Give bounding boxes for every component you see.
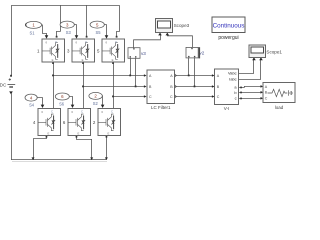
svg-text:S2: S2 bbox=[93, 101, 99, 106]
svg-text:3: 3 bbox=[67, 49, 70, 54]
svg-text:b: b bbox=[234, 90, 236, 95]
svg-text:C: C bbox=[265, 97, 268, 101]
svg-text:LC Filter1: LC Filter1 bbox=[151, 105, 171, 110]
svg-text:v3: v3 bbox=[141, 51, 146, 56]
svg-text:C: C bbox=[85, 40, 87, 44]
svg-text:v2: v2 bbox=[199, 51, 204, 56]
svg-text:load: load bbox=[275, 105, 284, 110]
svg-text:powergui: powergui bbox=[218, 35, 238, 41]
svg-text:E: E bbox=[52, 58, 54, 62]
svg-text:C: C bbox=[51, 110, 53, 114]
svg-text:E: E bbox=[78, 131, 80, 135]
svg-text:S5: S5 bbox=[95, 30, 101, 35]
svg-text:E: E bbox=[108, 131, 110, 135]
svg-text:C: C bbox=[111, 110, 113, 114]
svg-text:C: C bbox=[81, 110, 83, 114]
svg-text:E: E bbox=[48, 131, 50, 135]
svg-text:DC: DC bbox=[0, 83, 7, 88]
svg-text:E: E bbox=[112, 58, 114, 62]
svg-text:Scope1: Scope1 bbox=[266, 50, 282, 55]
svg-text:4: 4 bbox=[33, 120, 36, 125]
svg-text:Scope3: Scope3 bbox=[174, 23, 190, 28]
svg-text:C: C bbox=[170, 95, 173, 99]
svg-text:2: 2 bbox=[93, 120, 96, 125]
svg-text:C: C bbox=[217, 95, 220, 99]
svg-text:C: C bbox=[55, 40, 57, 44]
svg-text:Vabc: Vabc bbox=[228, 71, 237, 76]
svg-text:c: c bbox=[235, 96, 237, 101]
svg-text:E: E bbox=[82, 58, 84, 62]
svg-text:6: 6 bbox=[63, 120, 66, 125]
svg-text:C: C bbox=[149, 95, 152, 99]
svg-text:S6: S6 bbox=[59, 102, 65, 107]
svg-text:5: 5 bbox=[97, 49, 100, 54]
svg-text:S1: S1 bbox=[29, 30, 35, 35]
svg-text:C: C bbox=[115, 40, 117, 44]
svg-text:S4: S4 bbox=[29, 102, 35, 107]
svg-text:Iabc: Iabc bbox=[229, 77, 236, 82]
svg-text:S3: S3 bbox=[66, 30, 72, 35]
svg-text:Continuous: Continuous bbox=[213, 22, 245, 29]
svg-text:V-I: V-I bbox=[224, 106, 230, 111]
svg-text:1: 1 bbox=[37, 49, 40, 54]
